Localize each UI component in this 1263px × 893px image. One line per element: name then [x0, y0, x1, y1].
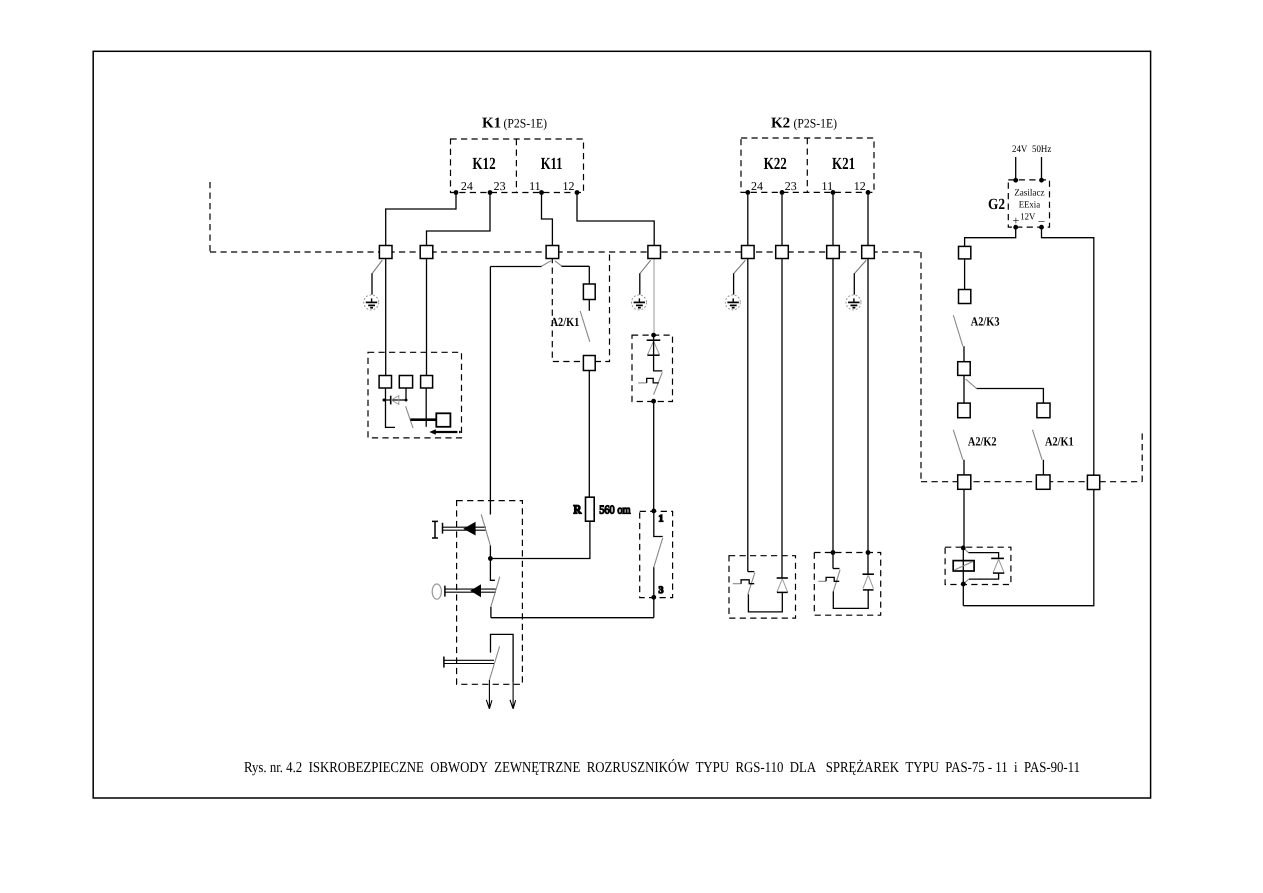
blade A2/K1 right: [1033, 430, 1043, 460]
svg-text:+: +: [1013, 214, 1020, 228]
contact A2/K1 lower terminal: [583, 356, 595, 371]
ground at terminal x385: [364, 260, 383, 310]
node G2 terminals: [1013, 178, 1044, 230]
node pin 11 K11: [539, 190, 544, 195]
wire diode box to contact 1: [653, 401, 655, 511]
svg-text:K12: K12: [472, 154, 495, 173]
svg-text:50Hz: 50Hz: [1032, 144, 1052, 155]
node K21 box left: [831, 550, 836, 555]
wire bus terminal to coil: [963, 489, 965, 548]
svg-text:EExia: EExia: [1019, 201, 1041, 211]
node pin 24 K22: [745, 190, 750, 195]
reed terminal 3: [421, 376, 433, 389]
node pin 12 K11: [575, 190, 580, 195]
node K21 box right: [866, 550, 871, 555]
pressure contact 1-3 dashed box: [640, 511, 673, 597]
node reed diode right: [405, 399, 408, 402]
svg-text:24V: 24V: [1012, 144, 1028, 155]
wire pin23 K22 down: [781, 192, 783, 578]
svg-text:24: 24: [751, 179, 763, 193]
K21 auxiliary dashed box: [814, 553, 880, 616]
terminal on bus x833: [827, 246, 840, 259]
contact A2/K1 dashed box (left): [552, 253, 609, 362]
svg-text:23: 23: [785, 179, 797, 193]
reed terminal 1: [379, 376, 391, 389]
svg-text:12V: 12V: [1020, 213, 1035, 223]
start button I: [432, 514, 490, 558]
svg-text:A2/K1: A2/K1: [1045, 435, 1074, 449]
reed magnet square: [436, 413, 450, 427]
resistor R: [586, 497, 595, 521]
wire coil bottom to minus rail: [962, 584, 964, 606]
svg-text:K22: K22: [764, 154, 787, 173]
right bus terminal x964: [958, 475, 971, 489]
wire pin23 K12 to terminal: [427, 193, 491, 246]
node start/stop junction: [488, 556, 493, 561]
ground at terminal x654: [632, 260, 651, 310]
terminal on bus x868: [862, 246, 875, 259]
svg-text:24: 24: [461, 179, 473, 193]
node pin 24 K12: [454, 190, 459, 195]
svg-text:G2: G2: [988, 196, 1005, 213]
svg-text:(P2S-1E): (P2S-1E): [504, 116, 548, 131]
svg-text:A2/K3: A2/K3: [971, 315, 1000, 329]
wire G2 minus output: [963, 227, 1094, 606]
svg-text:R: R: [573, 503, 582, 517]
svg-text:560 om: 560 om: [599, 503, 631, 517]
wire pin11 K21 down: [832, 192, 834, 568]
power supply wires 24V: [1016, 157, 1042, 180]
A2/K2 upper terminal: [958, 403, 971, 418]
svg-text:K11: K11: [541, 154, 563, 173]
wire pin12 K21 down: [867, 192, 869, 574]
node diode box top: [651, 333, 656, 338]
wire terminal to diode box (gray): [653, 259, 655, 335]
svg-text:12: 12: [563, 179, 575, 193]
reed sensor dashed box: [368, 352, 462, 438]
diode VD1 with NC contact: [638, 335, 662, 395]
svg-text:A2/K2: A2/K2: [968, 435, 997, 449]
border frame: [93, 51, 1150, 798]
svg-text:3: 3: [659, 585, 664, 596]
pressure contact 1-3: [654, 511, 663, 597]
wire resistor R to junction: [490, 521, 590, 558]
reed terminal 2: [399, 376, 412, 389]
node coil bottom: [961, 582, 966, 587]
node coil top: [961, 546, 966, 551]
ground at terminal x748: [725, 260, 745, 310]
wire contact A2/K1 upper: [588, 300, 590, 311]
terminal on bus x552: [546, 246, 559, 259]
wire A2/K2 to bus terminal: [963, 460, 965, 475]
wire blade to terminal: [963, 346, 965, 361]
stop button O: [432, 559, 500, 618]
terminal on bus x385: [379, 246, 392, 259]
start/stop buttons dashed box: [457, 501, 523, 685]
relay coil A2 dashed box: [945, 547, 1011, 584]
svg-text:K1: K1: [482, 116, 501, 132]
blade A2/K2: [953, 430, 963, 460]
svg-text:1: 1: [659, 514, 664, 525]
reed motion arrow: [429, 429, 460, 435]
relay coil A2 with diode: [953, 548, 1004, 584]
node diode box bottom: [651, 399, 656, 404]
svg-text:11: 11: [822, 179, 834, 193]
terminal on bus x654: [648, 246, 661, 259]
node pin 12 K21: [866, 190, 871, 195]
K22 auxiliary dashed box: [729, 556, 796, 618]
bus (dashed intrinsically-safe barrier boundary): [210, 182, 1142, 482]
terminal on bus x426: [420, 246, 433, 259]
wire pin24 K12 to terminal: [386, 193, 456, 246]
wire G2 plus output: [965, 227, 1016, 246]
reed sensor internals: [384, 259, 436, 429]
wire terminal to A2/K2 terminal: [963, 375, 965, 403]
node pin 23 K22: [780, 190, 785, 195]
G2 chain terminal 3: [958, 362, 971, 376]
blade contact A2/K1: [580, 311, 590, 342]
wire branch to A2/K1 terminal: [966, 379, 977, 389]
node reed diode left: [383, 399, 386, 402]
svg-text:Rys. nr. 4.2 ISKROBEZPIECZNE: Rys. nr. 4.2 ISKROBEZPIECZNE OBWODY ZEWN…: [244, 759, 1080, 776]
terminal on bus x782: [776, 246, 789, 259]
ground at terminal x868: [846, 260, 866, 310]
wire terminal to contact A2/K1: [555, 261, 562, 267]
svg-text:23: 23: [494, 179, 506, 193]
svg-text:Zasilacz: Zasilacz: [1014, 188, 1044, 198]
wire A2/K1 to bus terminal: [1042, 460, 1044, 475]
right bus terminal x1043: [1036, 475, 1050, 489]
wire contact A2/K1 to resistor R: [588, 371, 590, 498]
contact A2/K1 upper terminal: [583, 284, 595, 300]
wire stop button to contact 3: [491, 597, 654, 617]
relay K2 dashed enclosure: [741, 138, 874, 192]
pressure switch actuator: [444, 634, 516, 708]
diode/contact dashed box (K1 output): [632, 335, 673, 401]
K21 auxiliary contact and diode: [818, 569, 874, 609]
svg-text:A2/K1: A2/K1: [551, 315, 580, 329]
A2/K1 upper terminal right: [1037, 403, 1050, 418]
node contact pin 1: [651, 509, 656, 514]
K22 auxiliary contact and diode: [733, 572, 788, 612]
wire pin24 K22 down: [747, 192, 749, 571]
relay K1 dashed enclosure: [451, 139, 584, 193]
blade A2/K3: [953, 315, 963, 346]
power supply G2 dashed box: [1008, 180, 1049, 227]
node pin 23 K12: [488, 190, 493, 195]
svg-text:11: 11: [529, 179, 541, 193]
svg-text:12: 12: [854, 179, 866, 193]
svg-text:–: –: [1038, 214, 1046, 228]
wire pin11 K11 to terminal: [542, 193, 553, 246]
svg-text:K2: K2: [771, 116, 790, 132]
node pin 11 K21: [831, 190, 836, 195]
G2 chain terminal 2: [959, 290, 971, 304]
svg-text:K21: K21: [832, 154, 855, 173]
wire A2/K3 chain: [964, 259, 966, 290]
wire terminal to start button: [541, 261, 551, 267]
wire pin12 K11 to terminal: [577, 193, 654, 246]
right bus terminal x1093: [1087, 475, 1099, 489]
G2 chain terminal 1: [959, 246, 971, 259]
terminal on bus x748: [742, 246, 755, 259]
node contact pin 3: [651, 595, 656, 600]
svg-text:(P2S-1E): (P2S-1E): [794, 116, 838, 131]
